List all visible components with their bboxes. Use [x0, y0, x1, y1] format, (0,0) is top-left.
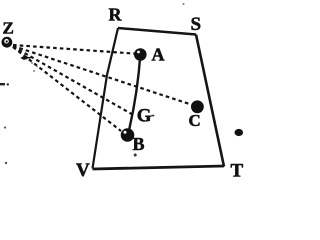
- svg-text:C: C: [189, 111, 201, 130]
- faint margin dot 1: [4, 126, 6, 128]
- point C: [191, 100, 204, 113]
- point A: [134, 48, 147, 61]
- label G: [137, 106, 152, 127]
- quadrilateral top edge R-S: [118, 28, 196, 35]
- quadrilateral left edge R-V: [93, 28, 119, 169]
- dashed ray Z-B: [13, 47, 121, 131]
- label C: [189, 111, 201, 130]
- left margin dash-dot artifact: [0, 83, 9, 86]
- top speck: [183, 3, 185, 5]
- svg-text:R: R: [109, 5, 123, 25]
- label V: [76, 160, 90, 181]
- faint margin dot 2: [5, 162, 7, 164]
- dot near T: [235, 129, 244, 136]
- dashed ray Z-A: [13, 45, 135, 54]
- quadrilateral right edge S-T: [196, 35, 224, 167]
- quadrilateral bottom edge V-T: [93, 166, 225, 169]
- speck below B: [134, 154, 137, 157]
- svg-text:T: T: [231, 161, 244, 182]
- ink dart artifact: [20, 56, 31, 60]
- svg-text:Z: Z: [3, 19, 14, 38]
- label T: [231, 161, 244, 182]
- label S: [191, 14, 202, 35]
- svg-text:A: A: [152, 45, 165, 65]
- scatter speck c: [33, 70, 35, 72]
- svg-text:G: G: [137, 106, 152, 127]
- label B: [133, 134, 145, 154]
- point Z: [2, 37, 13, 48]
- point B: [121, 128, 135, 142]
- svg-text:S: S: [191, 14, 202, 35]
- dashed ray Z-G: [13, 47, 133, 115]
- svg-text:V: V: [76, 160, 90, 181]
- svg-text:B: B: [133, 134, 145, 154]
- scatter speck b: [36, 66, 38, 68]
- dashed ray Z-C: [13, 46, 191, 105]
- label Z: [3, 19, 14, 38]
- segment A-B: [128, 55, 140, 135]
- label R: [109, 5, 123, 25]
- scatter speck a: [31, 62, 33, 64]
- label A: [152, 45, 165, 65]
- tick after G: [151, 115, 154, 117]
